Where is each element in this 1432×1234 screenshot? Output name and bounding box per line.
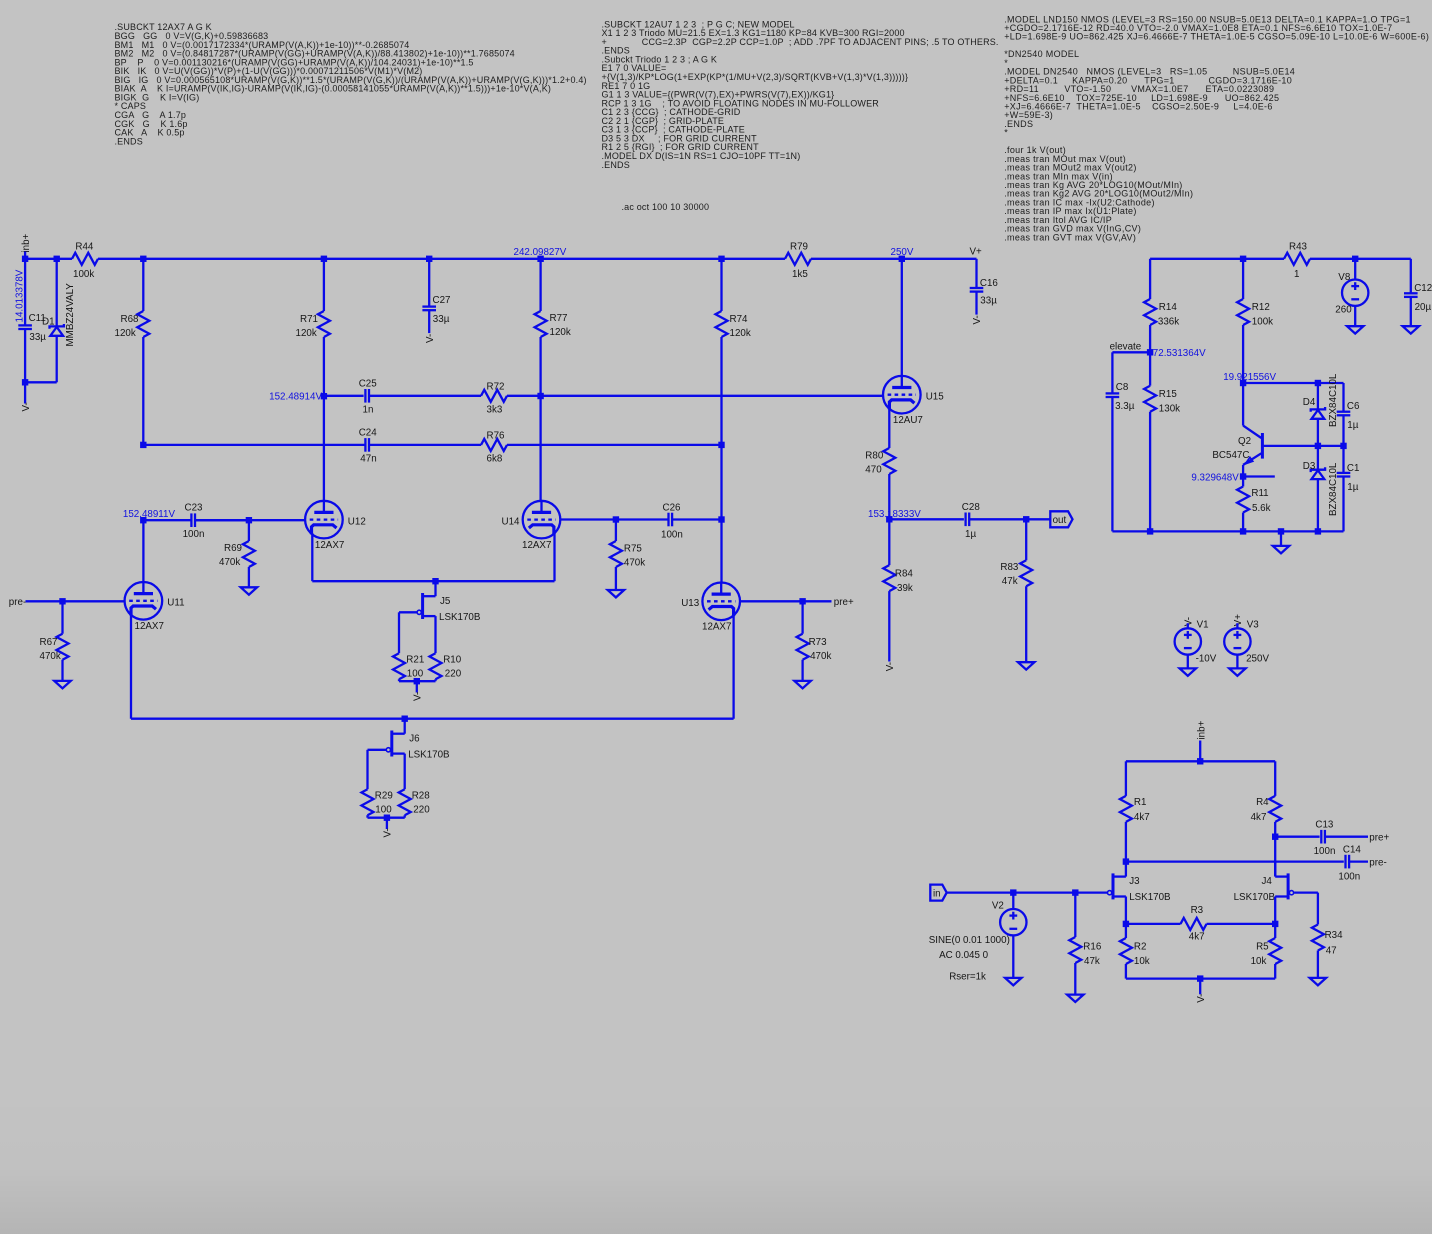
- svg-text:9.329648V: 9.329648V: [1191, 472, 1239, 483]
- capacitor C25: [365, 389, 481, 403]
- triode U15 (12AU7): [883, 376, 921, 414]
- junction at V2 tap: [1010, 889, 1016, 895]
- value 47k (R83): [1002, 576, 1018, 587]
- svg-text:R28: R28: [412, 791, 431, 802]
- svg-text:120k: 120k: [296, 328, 317, 339]
- svg-text:470k: 470k: [40, 651, 61, 662]
- svg-text:R79: R79: [790, 242, 808, 253]
- label V2: [992, 900, 1004, 911]
- svg-text:R43: R43: [1289, 242, 1308, 253]
- svg-text:R73: R73: [809, 637, 828, 648]
- svg-text:V-: V-: [383, 828, 394, 837]
- label R43: [1289, 242, 1308, 253]
- capacitor C6: [1337, 412, 1351, 446]
- resistor R1: [1120, 761, 1132, 861]
- value 220 (R10): [445, 669, 462, 680]
- svg-text:V-: V-: [21, 402, 32, 411]
- svg-text:470k: 470k: [624, 558, 645, 569]
- junction at R12 top: [1240, 256, 1246, 262]
- resistor R3: [1126, 918, 1275, 930]
- type 12AX7 (U12): [315, 540, 344, 551]
- junction at R16 tap: [1072, 889, 1078, 895]
- value 100n (C13): [1314, 846, 1336, 857]
- wire: elevate stub to C8: [1112, 352, 1150, 393]
- node voltage label 250V: [891, 247, 914, 258]
- label U11: [167, 598, 184, 609]
- wire: input stage top rail: [1126, 760, 1275, 762]
- svg-text:U15: U15: [926, 391, 945, 402]
- svg-text:120k: 120k: [550, 327, 571, 338]
- resistor R10: [430, 653, 442, 679]
- svg-text:U12: U12: [348, 516, 366, 527]
- wire: cathode node to C28: [889, 518, 964, 520]
- resistor R76: [481, 439, 507, 451]
- value 100n (C23): [183, 529, 205, 540]
- svg-text:elevate: elevate: [1110, 341, 1142, 352]
- spice directive text: 12AX7 subcircuit model: [115, 22, 587, 146]
- net flag V+ above V3 (rotated): [1233, 614, 1244, 627]
- svg-text:R15: R15: [1159, 389, 1178, 400]
- resistor R34: [1312, 925, 1324, 978]
- resistor R71: [318, 259, 330, 396]
- svg-text:242.09827V: 242.09827V: [514, 247, 567, 258]
- label R21: [406, 655, 424, 666]
- svg-text:4k7: 4k7: [1134, 812, 1150, 823]
- capacitor C23: [191, 513, 249, 527]
- junction inb+ at top rail: [1197, 758, 1203, 764]
- net label pre-: [9, 597, 26, 608]
- value 10k (R2): [1134, 956, 1150, 967]
- svg-text:C25: C25: [359, 378, 378, 389]
- wire: 250V rail to V+ corner: [811, 258, 977, 260]
- label C6: [1347, 401, 1360, 412]
- resistor R72: [481, 390, 507, 402]
- wire: stub to V- below input stage: [1199, 979, 1201, 995]
- value 4k7 (R1): [1134, 812, 1150, 823]
- value 470k (R75): [624, 558, 645, 569]
- net label pre+: [834, 597, 854, 608]
- junction at J6 source network bottom: [384, 815, 390, 821]
- junction at R4 bottom / C13: [1272, 834, 1278, 840]
- svg-text:.ENDS: .ENDS: [602, 160, 630, 170]
- label R28: [412, 791, 431, 802]
- junction at C27 top: [426, 256, 432, 262]
- jfet J6 (LSK170B): [386, 719, 404, 757]
- net flag V- below C16 (rotated): [972, 315, 983, 324]
- svg-text:V3: V3: [1247, 619, 1260, 630]
- value 39k (R84): [897, 583, 913, 594]
- value 120k (R71): [296, 328, 317, 339]
- svg-text:+LD=1.698E-9 UO=862.425 XJ=6.4: +LD=1.698E-9 UO=862.425 XJ=6.4666E-7 THE…: [1004, 32, 1429, 42]
- type 12AU7 (U15): [893, 415, 923, 426]
- type 12AX7 (U11): [135, 621, 164, 632]
- junction base wire at D3 column: [1315, 443, 1321, 449]
- label U13: [681, 598, 700, 609]
- label R73: [809, 637, 828, 648]
- svg-text:C13: C13: [1315, 819, 1334, 830]
- resistor R83: [1020, 519, 1032, 662]
- label R1: [1134, 797, 1147, 808]
- svg-text:470k: 470k: [810, 651, 831, 662]
- net flag V- below R84 (rotated): [885, 662, 896, 671]
- svg-text:260: 260: [1335, 305, 1352, 316]
- value 1µ (C6): [1347, 420, 1358, 431]
- label C13: [1315, 819, 1334, 830]
- svg-text:.ENDS: .ENDS: [1004, 119, 1033, 129]
- value 33µ (C11): [29, 332, 46, 343]
- ground below R75: [608, 590, 624, 597]
- svg-text:C24: C24: [359, 427, 378, 438]
- svg-text:pre+: pre+: [834, 597, 854, 608]
- svg-text:R67: R67: [40, 637, 58, 648]
- net flag V- below C11 (rotated): [21, 402, 32, 411]
- junction at R77 top: [537, 256, 543, 262]
- net label inb+ above input stage (rotated): [1196, 720, 1207, 739]
- value 260 (V8): [1335, 305, 1352, 316]
- label J3: [1129, 876, 1140, 887]
- wire: stub to V- below J5 resistors: [416, 681, 418, 692]
- value 470k (R67): [40, 651, 61, 662]
- spice directive text: LND150 and DN2540 MOS models, .four and .meas commands: [1004, 14, 1429, 242]
- value Rser=1k (V2): [949, 972, 986, 983]
- svg-text:4k7: 4k7: [1189, 932, 1205, 943]
- jfet J4 (LSK170B, mirrored): [1275, 862, 1293, 900]
- svg-text:D1: D1: [42, 317, 55, 328]
- svg-text:1k5: 1k5: [792, 269, 808, 280]
- label R71: [300, 314, 318, 325]
- resistor R68: [137, 259, 149, 445]
- svg-text:BZX84C10L: BZX84C10L: [1328, 373, 1339, 427]
- resistor R28: [399, 789, 411, 815]
- svg-text:C27: C27: [433, 295, 451, 306]
- ground below V3: [1229, 668, 1245, 675]
- resistor R4: [1269, 761, 1281, 836]
- junction bottom rail at R15: [1147, 528, 1153, 534]
- svg-text:130k: 130k: [1159, 403, 1180, 414]
- value 100k (R12): [1252, 316, 1273, 327]
- voltage source V1: [1175, 623, 1201, 668]
- svg-text:inb+: inb+: [1196, 720, 1207, 739]
- label C28: [962, 502, 981, 513]
- svg-text:V2: V2: [992, 900, 1004, 911]
- svg-text:72.531364V: 72.531364V: [1153, 348, 1206, 359]
- svg-text:100k: 100k: [1252, 316, 1273, 327]
- label R4: [1256, 797, 1269, 808]
- label R5: [1256, 941, 1269, 952]
- svg-text:20µ: 20µ: [1415, 302, 1432, 313]
- wire: J3 drain rail to C14: [1126, 860, 1344, 862]
- svg-text:R10: R10: [443, 655, 462, 666]
- value SINE(0 0.01 1000) (V2): [929, 935, 1010, 946]
- svg-text:250V: 250V: [1246, 653, 1269, 664]
- svg-text:100: 100: [375, 805, 392, 816]
- ground below R83: [1018, 662, 1034, 669]
- wire: J4 gate to R34: [1294, 893, 1318, 925]
- label C11: [29, 313, 46, 324]
- svg-text:C8: C8: [1116, 382, 1129, 393]
- wire: J4 drain vertical: [1274, 837, 1276, 876]
- svg-text:V8: V8: [1338, 272, 1351, 283]
- wire: B+ rail (top): [25, 258, 72, 260]
- svg-text:J3: J3: [1129, 876, 1140, 887]
- capacitor C24: [365, 438, 481, 452]
- value 100k (R44): [73, 269, 94, 280]
- svg-text:U14: U14: [502, 516, 521, 527]
- wire: C13 to pre+: [1325, 836, 1368, 838]
- wire: C16 top lead: [975, 259, 977, 288]
- svg-text:100n: 100n: [1314, 846, 1336, 857]
- label R74: [730, 314, 749, 325]
- svg-text:SINE(0 0.01 1000): SINE(0 0.01 1000): [929, 935, 1010, 946]
- node voltage label 153.18333V: [868, 509, 921, 520]
- resistor R11: [1237, 477, 1249, 532]
- svg-text:Rser=1k: Rser=1k: [949, 972, 986, 983]
- svg-text:5.6k: 5.6k: [1252, 503, 1271, 514]
- label R11: [1251, 488, 1268, 499]
- junction at J5 source network bottom: [414, 678, 420, 684]
- label J6: [409, 734, 420, 745]
- capacitor C13: [1321, 830, 1325, 844]
- value 3.3µ (C8): [1115, 401, 1135, 412]
- label R29: [375, 791, 393, 802]
- svg-text:1µ: 1µ: [965, 529, 976, 540]
- svg-text:10k: 10k: [1134, 956, 1150, 967]
- triode U13 (12AX7, mirrored): [702, 583, 740, 621]
- ground below V1: [1180, 668, 1196, 675]
- svg-text:19.921556V: 19.921556V: [1223, 372, 1276, 383]
- wire: J5 source to R10: [434, 616, 436, 653]
- wire: U15 plate lead: [901, 259, 903, 376]
- svg-text:LSK170B: LSK170B: [408, 750, 450, 761]
- svg-text:D3: D3: [1303, 461, 1316, 472]
- label R68: [121, 314, 140, 325]
- net flag V- below C27 (rotated): [425, 334, 436, 343]
- node voltage label 19.921556V: [1223, 372, 1276, 383]
- node voltage label 152.48914V: [269, 392, 322, 403]
- svg-text:100n: 100n: [661, 529, 683, 540]
- svg-text:C28: C28: [962, 502, 981, 513]
- svg-text:*: *: [1004, 128, 1008, 138]
- value 47n (C24): [360, 454, 376, 465]
- label R79: [790, 242, 808, 253]
- label C27: [433, 295, 451, 306]
- resistor R2: [1120, 924, 1132, 979]
- svg-text:12AX7: 12AX7: [522, 540, 551, 551]
- svg-text:R44: R44: [75, 242, 94, 253]
- wire: R72 to U15 grid: [507, 395, 883, 397]
- svg-text:U11: U11: [167, 598, 184, 609]
- resistor R43: [1284, 253, 1310, 265]
- label U12: [348, 516, 366, 527]
- junction on B+ rail at D1 column: [54, 256, 60, 262]
- value 1 (R43): [1294, 269, 1299, 280]
- junction on B+ rail at C11 column: [22, 256, 28, 262]
- triode U11 (12AX7): [125, 582, 163, 620]
- zener diode D3: [1311, 446, 1325, 532]
- svg-text:C23: C23: [185, 503, 204, 514]
- wire: U12-U14 cathode rail: [312, 580, 554, 582]
- wire: 19.92V node to D4/C6: [1243, 383, 1343, 412]
- svg-text:C14: C14: [1343, 845, 1362, 856]
- svg-text:Q2: Q2: [1238, 436, 1251, 447]
- junction 9.329648V node: [1240, 473, 1246, 479]
- ground below regulator rail: [1273, 546, 1289, 553]
- junction at C11 bottom: [22, 379, 28, 385]
- svg-text:C26: C26: [663, 502, 682, 513]
- svg-text:152.48914V: 152.48914V: [269, 392, 322, 403]
- value 1µ (C1): [1347, 482, 1358, 493]
- svg-text:12AX7: 12AX7: [135, 621, 164, 632]
- junction 153.18333V node: [886, 516, 892, 522]
- junction at R68 top: [140, 256, 146, 262]
- svg-text:47k: 47k: [1002, 576, 1018, 587]
- svg-text:J6: J6: [409, 734, 420, 745]
- svg-text:4k7: 4k7: [1251, 812, 1267, 823]
- svg-text:V-: V-: [972, 315, 983, 324]
- ground below R73: [794, 681, 810, 688]
- svg-text:BC547C: BC547C: [1212, 450, 1249, 461]
- wire: U14 grid to R75/C26: [560, 518, 668, 520]
- svg-text:220: 220: [445, 669, 462, 680]
- value 470k (R73): [810, 651, 831, 662]
- net flag V- below J5 resistors (rotated): [413, 692, 424, 701]
- net flag V- below input stage (rotated): [1196, 994, 1207, 1003]
- svg-text:R11: R11: [1251, 488, 1268, 499]
- label V8: [1338, 272, 1351, 283]
- label R75: [624, 544, 643, 555]
- label U15: [926, 391, 945, 402]
- resistor R80: [883, 448, 895, 519]
- svg-text:R72: R72: [487, 382, 505, 393]
- svg-text:47n: 47n: [360, 454, 376, 465]
- label C14: [1343, 845, 1362, 856]
- resistor R5: [1269, 924, 1281, 979]
- triode U12 (12AX7): [305, 501, 343, 539]
- resistor R44: [72, 253, 98, 265]
- value 6k8 (R76): [487, 454, 503, 465]
- type LSK170B (J5): [439, 612, 481, 623]
- svg-text:1µ: 1µ: [1347, 482, 1358, 493]
- label R10: [443, 655, 462, 666]
- svg-text:*DN2540 MODEL: *DN2540 MODEL: [1004, 49, 1079, 59]
- ground below R34: [1310, 978, 1326, 985]
- value 120k (R68): [115, 328, 136, 339]
- svg-text:R2: R2: [1134, 941, 1147, 952]
- wire: node to C23: [143, 519, 191, 521]
- resistor R84: [883, 519, 895, 661]
- junction bottom rail at ground stub: [1278, 528, 1284, 534]
- wire: Q2 base to D3/C1 junction: [1264, 445, 1344, 447]
- label D4: [1303, 397, 1316, 408]
- junction C26 right at R74 column: [718, 516, 724, 522]
- svg-text:C6: C6: [1347, 401, 1360, 412]
- svg-text:120k: 120k: [730, 328, 751, 339]
- type BC547C (Q2): [1212, 450, 1249, 461]
- svg-text:33µ: 33µ: [980, 295, 997, 306]
- svg-text:1: 1: [1294, 269, 1299, 280]
- junction at R69 top: [246, 517, 252, 523]
- svg-text:pre-: pre-: [1369, 857, 1386, 868]
- svg-text:C12: C12: [1414, 283, 1432, 294]
- svg-text:+ CCG=2.3P CGP=2.: + CCG=2.3P CGP=2.2P CCP=1.0P ; ADD .7PF …: [602, 37, 999, 47]
- junction 19.921556V node: [1240, 380, 1246, 386]
- svg-text:R3: R3: [1191, 905, 1204, 916]
- node voltage label 14.013378V (rotated): [15, 269, 26, 322]
- svg-text:33µ: 33µ: [29, 332, 46, 343]
- wire: J6 gate to R29: [368, 750, 387, 789]
- svg-text:C16: C16: [980, 278, 999, 289]
- value 220 (R28): [413, 805, 430, 816]
- svg-text:pre+: pre+: [1369, 832, 1389, 843]
- svg-text:R16: R16: [1083, 941, 1102, 952]
- wire: C11 top lead: [24, 259, 26, 326]
- capacitor C11: [18, 325, 32, 382]
- junction at R71 top: [321, 256, 327, 262]
- label D3: [1303, 461, 1316, 472]
- wire: C23 to U12 grid: [195, 519, 305, 521]
- wire: C24 rail from R68: [143, 444, 365, 446]
- net label pre- (input stage): [1369, 857, 1386, 868]
- label R3: [1191, 905, 1204, 916]
- wire: U11-U13 cathode rail: [131, 718, 734, 720]
- wire: emitter stub: [1243, 475, 1275, 477]
- zener diode D1: [50, 259, 64, 383]
- wire: C14 to pre-: [1349, 860, 1368, 862]
- label R2: [1134, 941, 1147, 952]
- svg-text:R84: R84: [895, 569, 914, 580]
- type 12AX7 (U13): [702, 622, 731, 633]
- node voltage label 9.329648V: [1191, 472, 1239, 483]
- value -10V (V1): [1196, 653, 1217, 664]
- svg-text:1µ: 1µ: [1347, 420, 1358, 431]
- svg-text:47k: 47k: [1084, 956, 1100, 967]
- value 1n (C25): [363, 405, 374, 416]
- capacitor C16: [970, 288, 984, 315]
- svg-text:R83: R83: [1000, 562, 1019, 573]
- svg-text:LSK170B: LSK170B: [439, 612, 481, 623]
- wire: U11 plate lead: [142, 520, 144, 582]
- label Q2: [1238, 436, 1251, 447]
- svg-text:R75: R75: [624, 544, 643, 555]
- capacitor C14: [1346, 855, 1350, 869]
- svg-text:100: 100: [407, 669, 424, 680]
- svg-text:100n: 100n: [1338, 871, 1360, 882]
- svg-text:12AX7: 12AX7: [315, 540, 344, 551]
- value 100n (C26): [661, 529, 683, 540]
- resistor R75: [610, 520, 622, 591]
- wire: B+ rail to R79: [98, 258, 785, 260]
- net label pre+ (input stage): [1369, 832, 1389, 843]
- wire: R29/R28 bottom rail: [368, 815, 405, 818]
- svg-text:3k3: 3k3: [487, 405, 503, 416]
- zener diode D4: [1311, 383, 1325, 446]
- wire: input stage bottom rail: [1126, 977, 1275, 979]
- label BZX84C10L for D3 (rotated): [1328, 462, 1339, 516]
- svg-text:47: 47: [1326, 946, 1337, 957]
- value 100 (R21): [407, 669, 424, 680]
- value AC 0.045 0 (V2): [939, 950, 989, 961]
- label BZX84C10L for D4 (rotated): [1328, 373, 1339, 427]
- net port out (pennant): [1050, 511, 1072, 527]
- spice directive text: .ac analysis command: [622, 202, 710, 212]
- value 250V (V3): [1246, 653, 1269, 664]
- value 336k (R14): [1158, 316, 1179, 327]
- label R72: [487, 382, 505, 393]
- svg-text:R80: R80: [865, 451, 884, 462]
- wire: J5 gate to R21: [399, 612, 417, 653]
- label R16: [1083, 941, 1102, 952]
- svg-text:V-: V-: [1196, 994, 1207, 1003]
